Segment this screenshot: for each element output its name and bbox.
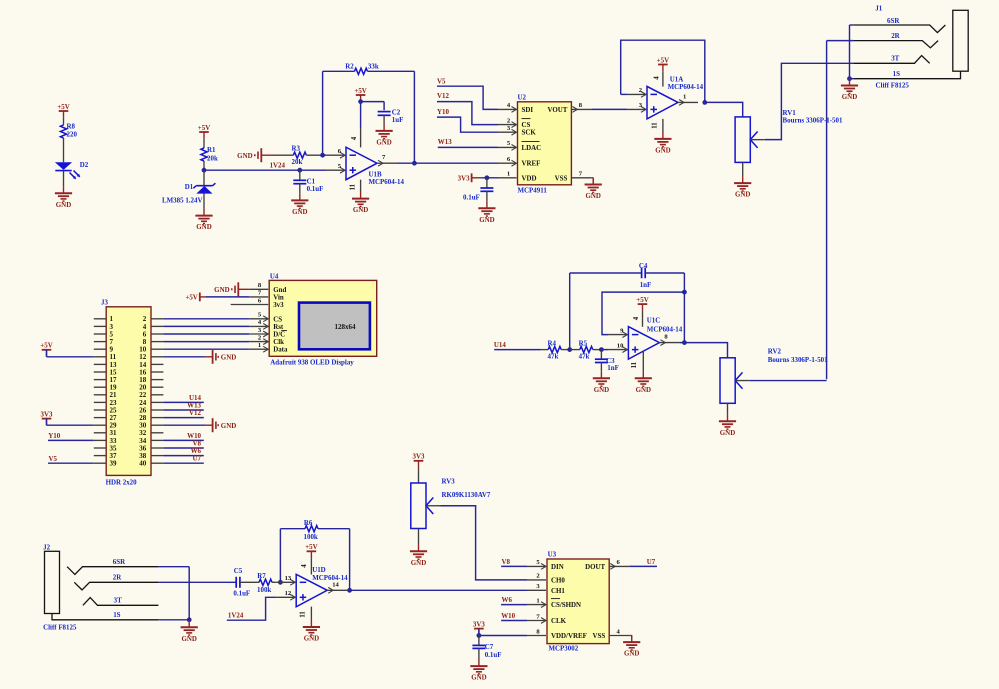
svg-text:220: 220	[67, 131, 78, 139]
ground (C1)	[291, 193, 308, 208]
resistor R1	[201, 146, 218, 170]
ground (U1C)	[635, 371, 652, 386]
potentiometer RV3	[411, 477, 491, 528]
connector J2 Cliff F8125	[43, 544, 158, 632]
svg-text:LDAC: LDAC	[522, 144, 542, 152]
wire	[742, 162, 744, 176]
wire	[322, 71, 324, 155]
wire	[158, 619, 189, 621]
svg-text:CS/SHDN: CS/SHDN	[551, 601, 581, 609]
svg-text:GND: GND	[636, 386, 651, 394]
svg-text:VDD/VREF: VDD/VREF	[551, 632, 587, 640]
svg-text:39: 39	[110, 460, 118, 468]
svg-text:3V3: 3V3	[413, 453, 425, 461]
svg-text:MCP4911: MCP4911	[518, 186, 548, 194]
svg-text:SCK: SCK	[522, 129, 537, 137]
svg-text:MCP604-14: MCP604-14	[647, 325, 683, 333]
svg-text:4: 4	[633, 316, 640, 320]
svg-text:47k: 47k	[579, 353, 590, 361]
wire	[501, 565, 527, 567]
junction R5/C3	[599, 347, 604, 352]
svg-text:1: 1	[683, 93, 686, 100]
svg-text:4: 4	[351, 136, 358, 140]
IC U4 Adafruit 938 OLED display	[231, 273, 377, 367]
wire	[46, 419, 48, 426]
svg-text:3V3: 3V3	[458, 174, 470, 182]
svg-text:R1: R1	[207, 146, 216, 154]
svg-text:R8: R8	[67, 122, 76, 130]
power 3V3	[414, 461, 424, 468]
svg-text:R5: R5	[579, 339, 588, 347]
wire	[349, 529, 351, 591]
svg-text:Adafruit 938 OLED Display: Adafruit 938 OLED Display	[270, 359, 354, 367]
power +5V	[638, 304, 648, 311]
wire	[163, 348, 249, 350]
svg-text:40: 40	[139, 460, 147, 468]
svg-text:+5V: +5V	[198, 124, 210, 132]
wire U2 VSS to ground	[591, 177, 593, 179]
connector J1 Cliff F8125	[853, 5, 968, 90]
svg-text:Cliff F8125: Cliff F8125	[43, 623, 77, 631]
svg-text:Cliff F8125: Cliff F8125	[876, 81, 910, 89]
svg-text:Y10: Y10	[437, 108, 449, 116]
wire	[204, 169, 326, 171]
wire	[438, 146, 498, 148]
svg-text:+5V: +5V	[636, 296, 648, 304]
capacitor C4	[570, 262, 685, 289]
svg-text:+5V: +5V	[57, 103, 69, 111]
resistor R6	[280, 519, 349, 541]
wire	[188, 567, 190, 620]
wire	[494, 349, 540, 351]
svg-text:1S: 1S	[113, 611, 120, 619]
wire	[240, 581, 259, 583]
svg-text:U7: U7	[647, 558, 656, 566]
svg-text:2R: 2R	[113, 574, 122, 582]
svg-text:0.1uF: 0.1uF	[463, 193, 480, 201]
wire	[418, 468, 420, 483]
svg-text:14: 14	[332, 581, 339, 588]
svg-text:GND: GND	[292, 208, 307, 216]
wire	[163, 447, 203, 449]
wire	[63, 171, 65, 187]
wire	[397, 162, 498, 164]
wire	[601, 349, 608, 351]
junction feedback	[682, 290, 687, 295]
wire	[360, 102, 362, 128]
svg-text:DOUT: DOUT	[585, 563, 605, 571]
junction J2 ground	[187, 617, 192, 622]
svg-text:GND: GND	[594, 386, 609, 394]
pin 4 U1B power	[360, 128, 362, 148]
svg-text:1: 1	[258, 342, 261, 349]
junction U1B output	[412, 161, 417, 166]
svg-text:+5V: +5V	[185, 294, 197, 302]
pin 4 U1C power	[642, 311, 644, 327]
svg-text:33k: 33k	[368, 63, 379, 71]
resistor R8	[60, 122, 77, 162]
resistor R3	[274, 144, 323, 166]
svg-text:1nF: 1nF	[607, 364, 619, 372]
wire	[418, 529, 420, 545]
pin 4 U1D power	[310, 558, 312, 574]
svg-text:RV2: RV2	[768, 347, 782, 355]
wire	[569, 273, 571, 350]
wire	[163, 424, 205, 426]
svg-text:RV3: RV3	[442, 477, 456, 485]
wire net 1V24 to U1D +	[227, 597, 276, 620]
svg-text:C4: C4	[639, 262, 648, 270]
svg-text:4: 4	[653, 76, 660, 80]
svg-text:GND: GND	[214, 286, 229, 294]
pin 11 U1D power	[310, 607, 312, 620]
wire	[727, 403, 729, 414]
svg-text:W6: W6	[502, 596, 513, 604]
svg-text:U7: U7	[193, 455, 202, 463]
wire	[323, 70, 355, 72]
ground (C7)	[470, 659, 487, 674]
junction R3/R2 feedback	[320, 153, 325, 158]
pin 11 U1A power	[662, 119, 664, 132]
capacitor 0.1uF (U2 bypass)	[463, 178, 493, 202]
svg-text:DIN: DIN	[551, 563, 564, 571]
svg-text:RK09K1130AV7: RK09K1130AV7	[442, 491, 491, 499]
svg-text:47k: 47k	[548, 353, 559, 361]
wire	[48, 462, 94, 464]
svg-text:4: 4	[301, 564, 308, 568]
svg-text:U14: U14	[494, 341, 506, 349]
diode D1	[162, 170, 215, 204]
junction 3V3/C	[485, 175, 490, 180]
svg-text:CH0: CH0	[551, 576, 565, 584]
svg-text:C5: C5	[234, 567, 243, 575]
svg-text:V5: V5	[49, 455, 58, 463]
power 3V3	[42, 419, 52, 426]
svg-text:GND: GND	[181, 635, 196, 643]
svg-text:100k: 100k	[257, 586, 271, 594]
wire net V12	[437, 102, 498, 125]
resistor R5	[570, 339, 602, 360]
svg-text:GND: GND	[479, 216, 494, 224]
svg-text:GND: GND	[735, 191, 750, 199]
wire	[478, 629, 480, 636]
svg-text:GND: GND	[411, 559, 426, 567]
svg-text:3V3: 3V3	[473, 620, 485, 628]
svg-text:GND: GND	[196, 223, 211, 231]
capacitor C2	[378, 109, 404, 124]
svg-text:GND: GND	[56, 201, 71, 209]
junction U1C output	[682, 340, 687, 345]
svg-text:20k: 20k	[292, 158, 303, 166]
op-amp U1C	[608, 316, 682, 359]
svg-text:3v3: 3v3	[273, 301, 284, 309]
svg-text:0.1uF: 0.1uF	[485, 651, 502, 659]
junction node 1V24	[202, 168, 207, 173]
wire U1A feedback	[621, 40, 705, 102]
capacitor C3	[595, 350, 619, 373]
svg-text:GND: GND	[376, 139, 391, 147]
svg-text:13: 13	[285, 575, 292, 582]
ground (C2)	[376, 124, 393, 139]
svg-text:R7: R7	[257, 572, 266, 580]
wire U3 VSS to ground	[629, 635, 632, 637]
pin 11 U1B power	[360, 180, 362, 192]
op-amp U1A	[627, 75, 704, 119]
svg-text:VSS: VSS	[555, 174, 568, 182]
pin 11 U1C power	[642, 351, 644, 371]
wire RV1 wiper to J1 3T	[765, 63, 854, 139]
svg-text:1: 1	[536, 597, 539, 604]
svg-text:U2: U2	[518, 94, 527, 102]
svg-text:3T: 3T	[114, 597, 122, 605]
svg-text:11: 11	[349, 183, 356, 190]
svg-text:U3: U3	[548, 551, 557, 559]
wire	[361, 101, 385, 103]
wire U1C inner feedback	[602, 292, 684, 335]
capacitor C1	[293, 170, 323, 193]
ground (U2 bypass)	[478, 201, 495, 216]
svg-text:1V24: 1V24	[228, 612, 244, 620]
wire	[413, 71, 415, 163]
svg-text:6SR: 6SR	[887, 17, 900, 25]
junction J1 ground	[847, 76, 852, 81]
ground (J1)	[841, 79, 858, 94]
wire	[368, 70, 415, 72]
svg-text:R4: R4	[548, 339, 557, 347]
ground (U1B)	[352, 192, 369, 207]
svg-text:VOUT: VOUT	[547, 106, 567, 114]
svg-text:Bourns 3306P-1-501: Bourns 3306P-1-501	[783, 117, 843, 125]
wire RV3 wiper to U3 CH0	[441, 506, 528, 580]
svg-text:11: 11	[652, 122, 659, 129]
wire	[46, 350, 48, 357]
svg-text:6SR: 6SR	[113, 558, 126, 566]
wire U1A out to RV1	[705, 102, 743, 117]
svg-text:GND: GND	[221, 353, 236, 361]
potentiometer RV2	[720, 347, 828, 403]
svg-text:HDR 2x20: HDR 2x20	[106, 478, 138, 486]
wire	[480, 177, 498, 179]
power +5V	[658, 65, 668, 72]
svg-text:0.1uF: 0.1uF	[307, 185, 324, 193]
wire	[347, 589, 527, 591]
svg-text:1V24: 1V24	[270, 162, 286, 170]
svg-text:3T: 3T	[891, 55, 899, 63]
svg-text:VDD: VDD	[522, 174, 537, 182]
wire	[826, 41, 828, 380]
power +5V	[42, 350, 52, 357]
svg-text:1S: 1S	[893, 70, 900, 78]
ground (U2 VSS)	[585, 178, 602, 193]
power +5V	[356, 95, 366, 102]
op-amp U1D	[276, 566, 348, 607]
junction 3V3/C7	[477, 633, 482, 638]
ground (J2)	[181, 620, 198, 635]
wire	[850, 78, 854, 80]
svg-text:+5V: +5V	[657, 56, 669, 64]
svg-text:Y10: Y10	[48, 432, 60, 440]
svg-text:MCP604-14: MCP604-14	[369, 178, 405, 186]
svg-text:CH1: CH1	[551, 587, 565, 595]
svg-text:1uF: 1uF	[392, 116, 404, 124]
wire	[850, 24, 854, 26]
wire	[501, 604, 527, 606]
svg-text:20k: 20k	[207, 154, 218, 162]
svg-text:GND: GND	[304, 635, 319, 643]
IC U2 MCP4911	[498, 94, 592, 195]
svg-text:VREF: VREF	[522, 160, 541, 168]
svg-text:D2: D2	[80, 161, 89, 169]
svg-text:12: 12	[285, 590, 292, 597]
wire	[849, 25, 851, 79]
diode D2 (LED)	[55, 161, 89, 179]
svg-text:128x64: 128x64	[335, 323, 357, 331]
svg-text:11: 11	[300, 611, 307, 618]
svg-text:MCP604-14: MCP604-14	[312, 574, 348, 582]
wire net V5	[437, 86, 498, 109]
wire U1C output to RV2	[679, 343, 727, 358]
power +5V	[199, 132, 209, 139]
pin 4 U1A power	[662, 71, 664, 86]
wire	[163, 318, 249, 320]
svg-text:D1: D1	[185, 183, 194, 191]
ground (J3 pin 12)	[205, 350, 218, 364]
wire	[383, 102, 385, 111]
power 3V3	[472, 173, 481, 182]
wire	[318, 528, 350, 530]
svg-text:Data: Data	[273, 346, 288, 354]
wire	[158, 581, 236, 583]
svg-text:U4: U4	[270, 273, 279, 281]
svg-text:GND: GND	[842, 93, 857, 101]
wire	[479, 635, 527, 637]
junction +5V/C2	[358, 99, 363, 104]
junction R4/R5/C4	[567, 347, 572, 352]
svg-text:W13: W13	[438, 138, 452, 146]
op-amp U1B	[326, 147, 404, 186]
svg-text:R6: R6	[304, 519, 313, 527]
wire	[279, 529, 281, 583]
svg-text:1: 1	[507, 171, 510, 178]
wire	[47, 356, 94, 358]
svg-text:GND: GND	[720, 429, 735, 437]
wire	[163, 409, 203, 411]
ground (RV1)	[734, 176, 751, 191]
svg-text:LM385 1.24V: LM385 1.24V	[162, 196, 202, 204]
svg-text:2R: 2R	[891, 32, 900, 40]
wire	[163, 455, 203, 457]
svg-text:U1A: U1A	[670, 75, 684, 83]
wire	[280, 528, 305, 530]
wire	[163, 462, 203, 464]
ground (D1)	[195, 209, 212, 224]
wire	[163, 341, 249, 343]
wire	[205, 296, 249, 298]
svg-text:GND: GND	[237, 152, 252, 160]
wire	[163, 439, 203, 441]
svg-text:J1: J1	[875, 5, 882, 13]
resistor R4	[541, 339, 570, 360]
ground (RV3)	[410, 544, 427, 559]
svg-text:3V3: 3V3	[41, 410, 53, 418]
IC U3 MCP3002	[527, 551, 629, 653]
svg-text:GND: GND	[655, 147, 670, 155]
wire	[323, 154, 326, 156]
svg-text:11: 11	[631, 361, 638, 368]
wire	[163, 333, 249, 335]
resistor R7	[257, 572, 276, 594]
svg-text:V5: V5	[437, 77, 446, 85]
wire	[683, 273, 685, 343]
wire	[163, 417, 203, 419]
wire	[645, 272, 684, 274]
wire	[621, 93, 627, 95]
svg-text:100k: 100k	[304, 533, 318, 541]
wire net Y10	[437, 117, 498, 132]
svg-text:0.1uF: 0.1uF	[233, 589, 250, 597]
ground (D2)	[55, 186, 72, 201]
svg-text:+5V: +5V	[40, 342, 52, 350]
wire	[163, 401, 203, 403]
ground (RV2)	[719, 414, 736, 429]
capacitor C7	[472, 636, 501, 660]
wire	[570, 272, 642, 274]
svg-text:CLK: CLK	[551, 617, 567, 625]
wire	[750, 380, 827, 382]
ground (U1A)	[654, 132, 671, 147]
svg-text:SDI: SDI	[522, 106, 534, 114]
resistor R2	[323, 63, 415, 75]
wire	[203, 139, 205, 148]
wire	[203, 194, 205, 209]
power 3V3	[474, 629, 484, 636]
svg-text:GND: GND	[353, 206, 368, 214]
junction U1A output	[702, 100, 707, 105]
svg-text:J3: J3	[101, 298, 108, 306]
svg-text:GND: GND	[585, 192, 600, 200]
svg-text:MCP3002: MCP3002	[549, 645, 579, 653]
svg-text:R2: R2	[345, 63, 354, 71]
svg-text:V12: V12	[189, 409, 201, 417]
svg-text:Bourns 3306P-1-501: Bourns 3306P-1-501	[768, 356, 828, 364]
wire	[48, 439, 94, 441]
svg-text:VSS: VSS	[592, 632, 605, 640]
svg-text:W10: W10	[501, 612, 515, 620]
svg-text:GND: GND	[624, 650, 639, 658]
svg-text:GND: GND	[471, 674, 486, 682]
svg-text:+5V: +5V	[305, 543, 317, 551]
ground (U1D)	[303, 620, 320, 635]
wire	[163, 356, 205, 358]
junction U1D output	[347, 588, 352, 593]
svg-text:+5V: +5V	[354, 87, 366, 95]
wire	[47, 424, 94, 426]
connector J3 HDR 2x20	[94, 298, 164, 486]
wire	[591, 108, 627, 110]
wire	[158, 566, 189, 568]
junction C1	[297, 168, 302, 173]
power +5V	[307, 551, 317, 558]
svg-text:V12: V12	[437, 92, 449, 100]
svg-text:U1C: U1C	[647, 316, 661, 324]
wire	[629, 565, 657, 567]
svg-text:V8: V8	[502, 558, 511, 566]
wire	[63, 118, 65, 125]
junction R7/R6	[278, 580, 283, 585]
ground (J3 pin 30)	[205, 418, 218, 432]
svg-text:J2: J2	[43, 544, 50, 552]
ground (C3)	[593, 371, 610, 386]
